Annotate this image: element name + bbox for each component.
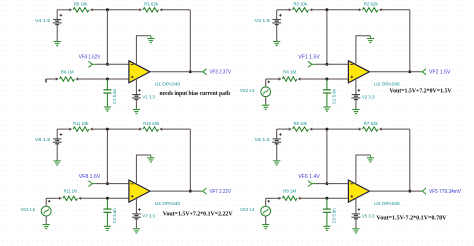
wire top rail — [277, 128, 410, 130]
svg-text:V8 1.5: V8 1.5 — [35, 137, 51, 143]
junction feedback/output — [189, 70, 192, 73]
op-amp U1 OPA340 — [129, 61, 181, 88]
wire op-amp V+ pin — [355, 199, 357, 214]
source VG3 — [240, 198, 271, 216]
wire node A down to inverting input — [106, 10, 108, 65]
svg-text:Vout=1.5V-7.2*0.1V=0.78V: Vout=1.5V-7.2*0.1V=0.78V — [376, 215, 446, 222]
battery V3 — [255, 10, 282, 25]
circuit 2 : top-right — [240, 2, 452, 114]
svg-text:C3 5.6n: C3 5.6n — [331, 208, 337, 223]
wire node A down to inverting input — [326, 129, 328, 184]
wire feedback right side — [189, 10, 191, 72]
ground below V2 — [352, 100, 359, 114]
junction node A — [106, 8, 109, 11]
junction node A — [325, 8, 328, 11]
resistor R9 1M — [279, 189, 301, 201]
ground below C4 — [106, 225, 108, 228]
ground below VG4 — [43, 216, 50, 229]
wire inverting input — [316, 183, 349, 185]
wire top rail — [57, 128, 190, 130]
svg-text:V6 1.5: V6 1.5 — [255, 137, 271, 143]
ground below V5 — [352, 219, 359, 233]
ground below C3 — [326, 225, 328, 228]
wire node A down to inverting input — [106, 129, 108, 184]
circuit 3 : bottom-left — [21, 121, 233, 233]
wire output — [370, 190, 421, 192]
battery V7 — [132, 208, 155, 219]
wire non-inverting input — [266, 78, 349, 80]
ground below V3 — [273, 25, 280, 46]
svg-text:C1 5.6n: C1 5.6n — [112, 89, 118, 104]
probe VF4 — [89, 61, 97, 67]
ground below VG3 — [262, 216, 269, 229]
wire feedback right side — [409, 129, 411, 191]
resistor R12 1M — [59, 189, 81, 201]
ground below V7 — [133, 219, 140, 233]
resistor R10 62k — [139, 121, 162, 131]
svg-text:R9 1M: R9 1M — [283, 189, 296, 195]
circuit 4 : bottom-right — [240, 121, 461, 233]
wire feedback right side — [409, 10, 411, 72]
ground op-amp V- pin — [369, 36, 371, 39]
svg-text:R10 62k: R10 62k — [143, 121, 160, 127]
wire non-inverting input — [46, 78, 129, 80]
wire op-amp V- pin — [356, 155, 371, 183]
battery V4 — [35, 10, 62, 25]
svg-text:U1 OPA340: U1 OPA340 — [155, 82, 181, 88]
svg-text:Vout=1.5V+7.2*0.1V=2.22V: Vout=1.5V+7.2*0.1V=2.22V — [163, 210, 233, 217]
wire op-amp V- pin — [356, 36, 371, 64]
junction inverting input — [325, 63, 328, 66]
svg-text:C4 5.6n: C4 5.6n — [112, 208, 118, 223]
source VG4 — [21, 198, 52, 216]
wire op-amp V+ pin — [355, 79, 357, 94]
svg-text:R4 1M: R4 1M — [283, 69, 296, 75]
junction feedback/output — [408, 190, 411, 193]
wire non-inverting input — [266, 197, 349, 199]
capacitor C1 — [103, 79, 118, 106]
svg-text:V7 3.3: V7 3.3 — [142, 214, 155, 220]
svg-text:R1 62k: R1 62k — [144, 2, 159, 8]
svg-text:VF5 779.34mV: VF5 779.34mV — [429, 189, 461, 195]
battery V8 — [35, 129, 62, 144]
resistor R5 10k — [69, 2, 93, 12]
svg-text:needs input bias current path: needs input bias current path — [160, 90, 231, 97]
svg-text:VF1 1.5V: VF1 1.5V — [298, 55, 320, 61]
svg-text:U4 OPA340: U4 OPA340 — [155, 201, 181, 207]
wire inverting input — [316, 63, 349, 65]
ground below V8 — [54, 144, 61, 165]
svg-text:U3 OPA340: U3 OPA340 — [374, 201, 400, 207]
svg-text:VF6 1.4V: VF6 1.4V — [298, 174, 320, 180]
source VG2 — [240, 79, 271, 97]
junction capacitor tap — [325, 78, 328, 81]
svg-text:R7 62k: R7 62k — [364, 121, 379, 127]
junction inverting input — [325, 182, 328, 185]
wire op-amp V+ pin — [135, 199, 137, 214]
svg-text:R5 10k: R5 10k — [74, 2, 88, 8]
probe VF5 — [420, 188, 426, 194]
resistor R7 62k — [359, 121, 382, 131]
junction inverting input — [106, 182, 109, 185]
ground below C2 — [326, 105, 328, 108]
svg-text:V4 1.5: V4 1.5 — [35, 18, 51, 24]
junction node A — [106, 128, 109, 131]
wire top rail — [57, 9, 190, 11]
svg-text:VG2 1.5: VG2 1.5 — [240, 88, 255, 94]
junction capacitor tap — [106, 197, 109, 200]
battery V6 — [255, 129, 282, 144]
wire output — [150, 190, 201, 192]
battery V5 — [351, 208, 374, 219]
wire op-amp V+ pin — [135, 79, 137, 94]
battery V2 — [351, 89, 374, 100]
ground op-amp V- pin — [150, 36, 152, 39]
resistor R11 10k — [69, 121, 93, 131]
junction feedback/output — [408, 70, 411, 73]
ground op-amp V- pin — [369, 155, 371, 158]
probe VF7 — [201, 188, 207, 194]
svg-text:VF3 2.37V: VF3 2.37V — [210, 70, 232, 76]
wire inverting input — [96, 63, 129, 65]
op-amp U3 OPA340 — [348, 180, 400, 207]
circuit 1 : top-left — [35, 2, 231, 114]
probe VF8 — [89, 181, 97, 187]
resistor R2 62k — [359, 2, 382, 12]
probe VF2 — [420, 69, 426, 75]
probe VF3 — [201, 69, 207, 75]
svg-text:Vout=1.5V+7.2*0V=1.5V: Vout=1.5V+7.2*0V=1.5V — [389, 87, 452, 94]
svg-text:V3 1.5: V3 1.5 — [255, 18, 271, 24]
junction capacitor tap — [325, 197, 328, 200]
svg-text:V5 3.3: V5 3.3 — [362, 214, 375, 220]
resistor R3 10k — [289, 2, 313, 12]
svg-text:R6 1M: R6 1M — [61, 69, 74, 75]
svg-text:R8 10k: R8 10k — [293, 121, 307, 127]
battery V1 — [132, 89, 155, 100]
op-amp U2 OPA340 — [348, 61, 400, 88]
wire feedback right side — [189, 129, 191, 191]
svg-text:C2 5.6n: C2 5.6n — [331, 89, 337, 104]
wire top rail — [277, 9, 410, 11]
ground below V1 — [133, 100, 140, 114]
probe VF1 — [308, 61, 316, 67]
svg-text:VF8 1.6V: VF8 1.6V — [79, 174, 101, 180]
svg-text:V1 3.3: V1 3.3 — [142, 94, 155, 100]
resistor R8 10k — [289, 121, 313, 131]
ground below V6 — [273, 144, 280, 165]
svg-text:VF4 1.62V: VF4 1.62V — [79, 55, 101, 61]
svg-text:VG4 1.6: VG4 1.6 — [21, 207, 36, 213]
capacitor C4 — [103, 198, 118, 225]
svg-text:R12 1M: R12 1M — [64, 189, 77, 195]
junction node A — [325, 128, 328, 131]
open wire end tick — [45, 79, 47, 83]
wire output — [150, 71, 201, 73]
svg-text:R2 62k: R2 62k — [364, 2, 379, 8]
wire op-amp V- pin — [136, 36, 151, 64]
resistor R4 1M — [279, 69, 301, 81]
svg-text:R11 10k: R11 10k — [73, 121, 89, 127]
svg-text:V2 3.3: V2 3.3 — [362, 94, 375, 100]
ground below V4 — [54, 25, 61, 46]
junction inverting input — [106, 63, 109, 66]
wire op-amp V- pin — [136, 155, 151, 183]
svg-text:VF7 2.22V: VF7 2.22V — [210, 189, 232, 195]
wire output — [370, 71, 421, 73]
resistor R1 62k — [139, 2, 162, 12]
capacitor C2 — [323, 79, 338, 106]
probe VF6 — [308, 181, 316, 187]
resistor R6 1M — [56, 69, 79, 81]
svg-text:R3 10k: R3 10k — [293, 2, 307, 8]
svg-text:VG3 1.4: VG3 1.4 — [240, 207, 255, 213]
wire inverting input — [96, 183, 129, 185]
ground below C1 — [106, 105, 108, 108]
wire non-inverting input — [46, 197, 129, 199]
capacitor C3 — [323, 198, 338, 225]
op-amp U4 OPA340 — [129, 180, 181, 207]
junction feedback/output — [189, 190, 192, 193]
wire node A down to inverting input — [326, 10, 328, 65]
junction capacitor tap — [106, 78, 109, 81]
ground below VG2 — [262, 97, 269, 110]
ground op-amp V- pin — [150, 155, 152, 158]
svg-text:VF2 1.5V: VF2 1.5V — [429, 70, 451, 76]
